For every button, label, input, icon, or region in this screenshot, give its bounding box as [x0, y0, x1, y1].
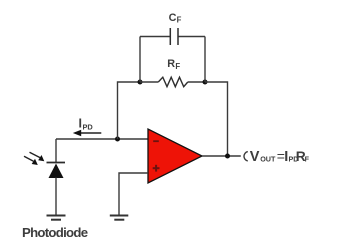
svg-text:F: F: [177, 16, 182, 25]
svg-text:V: V: [250, 149, 260, 165]
label IPD: [79, 117, 94, 132]
wire: non-inverting input to ground: [119, 173, 148, 215]
node: inverting input junction: [115, 137, 120, 142]
wire: feedback left vertical: [118, 82, 141, 139]
current arrow IPD: [73, 130, 102, 136]
node: RF left junction: [138, 80, 143, 85]
svg-text:R: R: [167, 58, 175, 70]
wire: RF right stub: [188, 81, 205, 83]
node: RF right junction: [203, 80, 208, 85]
photodiode D1 cathode bar: [47, 162, 66, 164]
svg-text:PD: PD: [83, 122, 94, 131]
label RF: [167, 58, 180, 71]
capacitor CF: [140, 28, 205, 45]
ground (photodiode): [47, 216, 66, 220]
wire: output: [202, 155, 241, 157]
ground (non-inverting input): [110, 216, 129, 220]
op-amp plus sign: [153, 165, 160, 172]
op-amp minus sign: [153, 140, 159, 142]
svg-text:Photodiode: Photodiode: [22, 225, 88, 240]
label VOUT = IPD RF: [250, 148, 310, 165]
label CF: [169, 12, 182, 25]
svg-text:I: I: [79, 117, 82, 131]
op-amp U1: [148, 129, 202, 183]
light arrow 1 into photodiode: [30, 152, 45, 161]
svg-text:F: F: [175, 62, 180, 71]
wire: RF left stub: [140, 81, 158, 83]
wire: feedback right down to output: [205, 82, 228, 156]
wire: capacitor left vertical: [139, 37, 141, 83]
resistor RF zigzag: [158, 77, 188, 87]
light arrow 2 into photodiode: [24, 156, 38, 165]
svg-text:F: F: [305, 155, 310, 164]
wire: photodiode anode to ground: [55, 178, 57, 216]
svg-text:OUT: OUT: [260, 155, 276, 164]
node: output junction: [225, 154, 230, 159]
svg-text:C: C: [169, 12, 177, 24]
wire: capacitor right vertical: [204, 37, 206, 83]
output terminal bracket: [244, 152, 248, 161]
wire: photodiode cathode vertical: [55, 139, 57, 162]
photodiode D1 anode triangle: [49, 164, 64, 179]
wire: photodiode top wire to inverting input: [56, 138, 148, 140]
